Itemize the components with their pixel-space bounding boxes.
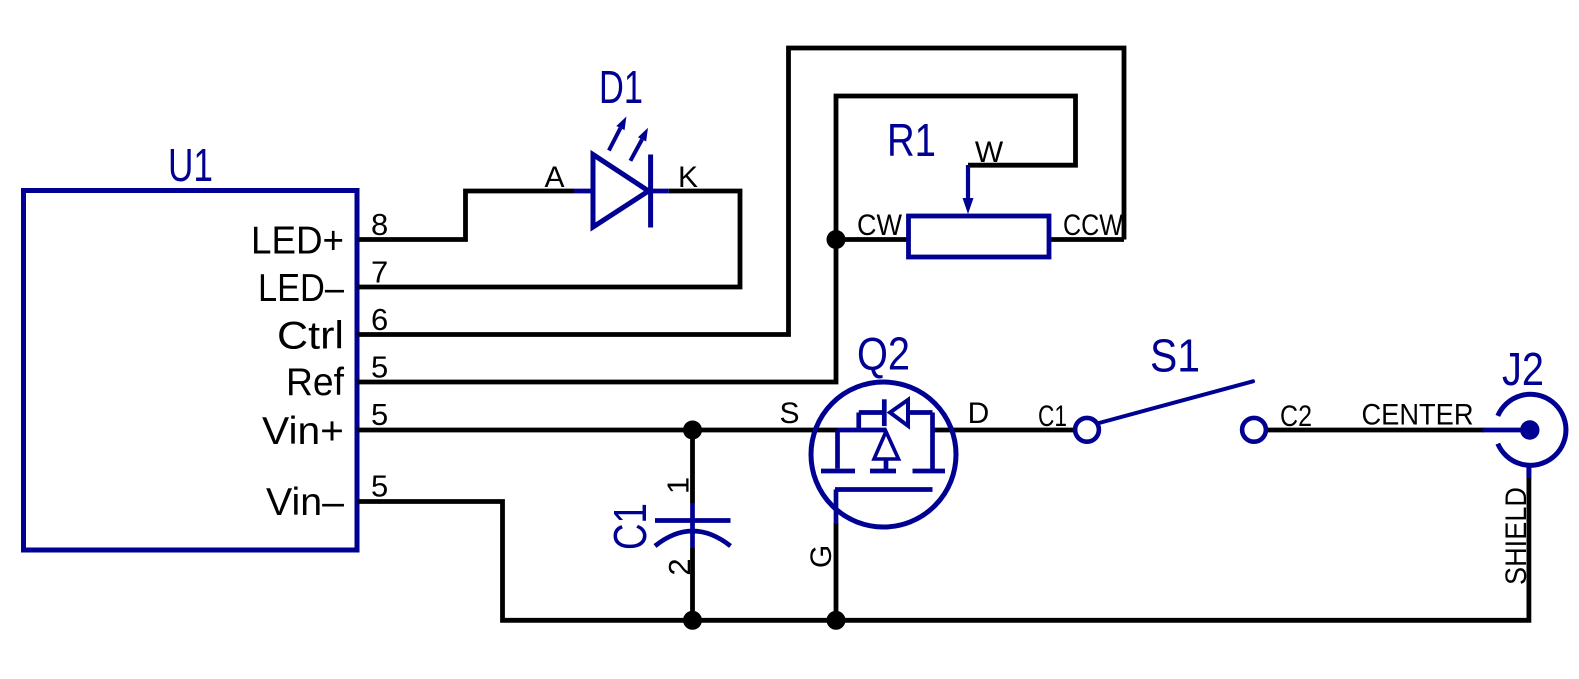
LED D1 cathode bar bbox=[648, 155, 653, 228]
connector J2 center pin dot bbox=[1520, 420, 1539, 439]
wire Ref pin5 to R1 wiper loop bbox=[357, 96, 1076, 382]
svg-text:C1: C1 bbox=[1038, 400, 1067, 433]
wire S1 terminal C2 to J2 center bbox=[1266, 428, 1484, 433]
MOSFET Q2 left diode vertical bbox=[856, 413, 861, 431]
junction dot C1 bottom bbox=[683, 611, 702, 630]
wire C1 top lead bbox=[690, 430, 695, 503]
MOSFET Q2 gate lead inside bbox=[834, 490, 839, 525]
svg-text:U1: U1 bbox=[168, 139, 213, 191]
svg-text:D: D bbox=[968, 397, 990, 430]
MOSFET Q2 channel bar 2 bbox=[870, 469, 896, 474]
svg-text:8: 8 bbox=[371, 207, 388, 242]
connector J2 shell arc bbox=[1498, 394, 1566, 465]
svg-text:LED–: LED– bbox=[258, 267, 344, 310]
MOSFET Q2 gate bar bbox=[835, 487, 933, 492]
svg-text:7: 7 bbox=[371, 255, 388, 290]
capacitor C1 top plate bbox=[655, 518, 731, 523]
MOSFET Q2 channel bar 1 bbox=[821, 469, 855, 474]
MOSFET Q2 channel bar 3 bbox=[913, 469, 946, 474]
switch S1 terminal circle C1 bbox=[1075, 418, 1099, 442]
svg-text:R1: R1 bbox=[887, 114, 936, 166]
svg-text:Q2: Q2 bbox=[857, 328, 910, 380]
wire CCW terminal bbox=[1049, 237, 1124, 242]
svg-text:6: 6 bbox=[371, 302, 388, 337]
MOSFET Q2 body diode right link bbox=[908, 410, 933, 415]
wire C1 bottom lead bbox=[690, 548, 695, 620]
MOSFET Q2 source-body horizontal bbox=[838, 428, 887, 433]
wire Vin+ pin5 to Q2 source bbox=[357, 428, 838, 433]
wire LED cathode to LED- pin7 bbox=[357, 191, 740, 287]
MOSFET Q2 drain vertical bbox=[930, 413, 935, 472]
LED D1 cathode lead bbox=[651, 189, 669, 194]
LED D1 emission arrow 1 bbox=[609, 117, 627, 151]
junction dot C1 top bbox=[683, 421, 702, 440]
svg-text:SHIELD: SHIELD bbox=[1500, 487, 1533, 585]
svg-text:W: W bbox=[975, 136, 1004, 169]
svg-text:Vin+: Vin+ bbox=[262, 410, 344, 453]
wire LED+ pin8 to LED anode bbox=[357, 191, 574, 240]
svg-text:S1: S1 bbox=[1150, 330, 1200, 382]
LED D1 triangle bbox=[593, 155, 649, 228]
svg-text:CCW: CCW bbox=[1063, 209, 1124, 242]
svg-text:S: S bbox=[779, 397, 799, 430]
MOSFET Q2 body arrow triangle bbox=[874, 432, 899, 460]
wire Q2 drain to S1 terminal C1 bbox=[933, 428, 1076, 433]
LED D1 emission arrow 2 bbox=[630, 128, 648, 161]
wire Q2 gate to bottom rail bbox=[834, 523, 839, 620]
svg-text:A: A bbox=[544, 161, 564, 194]
capacitor C1 lead through plates bbox=[690, 503, 695, 548]
svg-text:1: 1 bbox=[661, 477, 696, 494]
svg-text:C1: C1 bbox=[604, 503, 656, 550]
MOSFET Q2 body diode triangle bbox=[890, 400, 908, 426]
MOSFET Q2 body diode bar bbox=[882, 399, 887, 426]
potentiometer R1 wiper arrow bbox=[963, 165, 974, 214]
svg-text:5: 5 bbox=[371, 397, 388, 432]
svg-text:G: G bbox=[805, 545, 838, 568]
svg-text:5: 5 bbox=[371, 350, 388, 385]
svg-text:C2: C2 bbox=[1280, 400, 1312, 433]
junction dot Q2 gate on rail bbox=[827, 611, 846, 630]
svg-text:5: 5 bbox=[371, 469, 388, 504]
svg-text:LED+: LED+ bbox=[251, 220, 344, 263]
IC U1 box bbox=[24, 191, 358, 551]
svg-text:Ctrl: Ctrl bbox=[277, 315, 344, 358]
MOSFET Q2 body arrow stem bbox=[884, 459, 889, 469]
MOSFET Q2 body circle bbox=[811, 382, 956, 527]
svg-text:Vin–: Vin– bbox=[266, 481, 344, 524]
svg-text:CW: CW bbox=[857, 209, 903, 242]
LED D1 anode lead bbox=[574, 189, 593, 194]
svg-text:K: K bbox=[678, 161, 698, 194]
svg-text:J2: J2 bbox=[1502, 343, 1544, 395]
connector J2 shield stub bbox=[1526, 465, 1531, 478]
switch S1 terminal circle C2 bbox=[1242, 418, 1266, 442]
wire CW to junction bbox=[836, 237, 909, 242]
switch S1 blade bbox=[1097, 381, 1253, 423]
svg-text:Ref: Ref bbox=[286, 361, 344, 404]
wire Ctrl pin6 to R1 CCW top loop bbox=[357, 48, 1124, 335]
potentiometer R1 body bbox=[909, 216, 1050, 257]
svg-text:D1: D1 bbox=[599, 61, 643, 113]
capacitor C1 curved plate bbox=[655, 531, 731, 546]
svg-text:2: 2 bbox=[662, 558, 697, 575]
junction dot R1 CW / Ref bbox=[827, 230, 846, 249]
connector J2 center lead bbox=[1483, 428, 1530, 433]
MOSFET Q2 body diode left link bbox=[859, 410, 884, 415]
MOSFET Q2 source vertical bbox=[835, 430, 840, 469]
wire Vin- pin5 to bottom rail and J2 shield bbox=[357, 477, 1529, 620]
svg-text:CENTER: CENTER bbox=[1362, 398, 1474, 431]
